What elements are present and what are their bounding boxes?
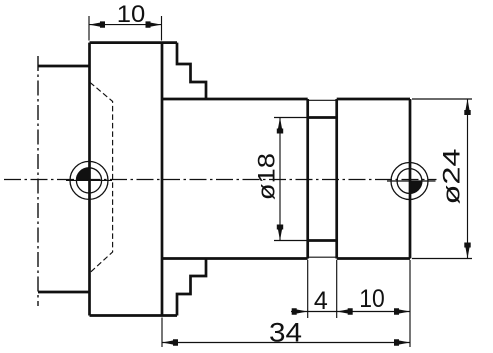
svg-text:ø24: ø24 [438,149,465,205]
svg-text:34: 34 [269,317,302,347]
svg-text:10: 10 [359,285,385,313]
svg-text:ø18: ø18 [253,153,280,200]
svg-text:10: 10 [117,1,146,28]
svg-text:4: 4 [314,287,328,315]
